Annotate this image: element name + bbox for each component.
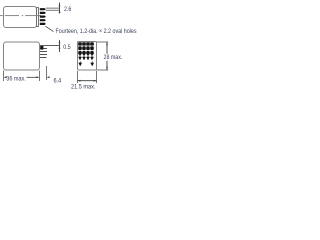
svg-text:2.6: 2.6 <box>64 7 72 13</box>
dim line 2.6 <box>59 3 61 14</box>
ext lines 21.5 <box>77 71 79 83</box>
svg-text:Fourteen, 1.2-dia. × 2.2 oval: Fourteen, 1.2-dia. × 2.2 oval holes <box>56 29 137 35</box>
top view relay body <box>4 7 37 28</box>
ext lines 28 <box>97 41 109 43</box>
coil arrows row5 <box>79 61 94 66</box>
ext line pin tips 6.4 <box>46 66 48 80</box>
centerline <box>0 15 41 17</box>
dim 36 max <box>4 76 7 78</box>
svg-text:28 max.: 28 max. <box>104 55 123 61</box>
top view pins (5) <box>40 8 46 25</box>
ext lines 36 <box>3 71 5 82</box>
dim 6.4 <box>47 76 50 78</box>
arrows row4 <box>79 55 94 60</box>
dim 28 max <box>106 42 108 54</box>
side view pins <box>40 46 60 58</box>
pin base blob <box>40 46 43 50</box>
leader <box>45 26 53 31</box>
svg-text:0.5: 0.5 <box>63 45 71 51</box>
bottom view rect <box>78 42 97 71</box>
top view base flange <box>37 8 39 27</box>
svg-text:6.4: 6.4 <box>54 78 62 84</box>
dim line 0.5 <box>59 40 61 52</box>
holes row2 <box>78 46 94 50</box>
side view relay body <box>4 42 40 70</box>
dim 21.5 max <box>78 80 97 82</box>
holes row1 <box>78 42 94 45</box>
svg-text:36 max.: 36 max. <box>6 77 26 83</box>
svg-text:21.5 max.: 21.5 max. <box>71 84 96 90</box>
holes row3 pointed <box>78 51 94 56</box>
pin width projection lines <box>46 8 60 10</box>
